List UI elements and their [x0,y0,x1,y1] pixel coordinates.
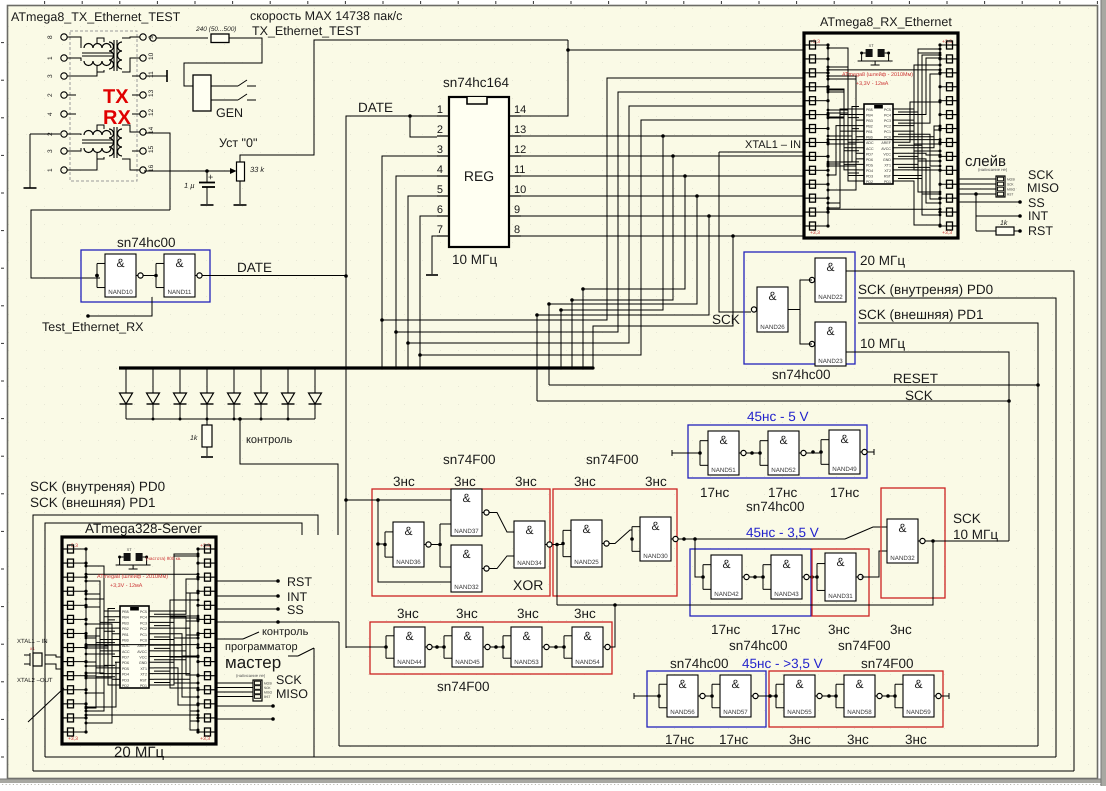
svg-text:NAND45: NAND45 [455,659,480,666]
svg-text:&: & [898,521,906,535]
gate NAND55 [784,675,815,717]
svg-text:2: 2 [437,124,443,136]
svg-text:5: 5 [437,184,443,196]
ethernet magnetics module dashed outline [70,31,137,181]
svg-text:MOSI: MOSI [1007,178,1015,182]
IC box sn74hc00 45ns-5V (blue) [688,425,867,478]
wire NAND51-NAND52 [746,452,761,454]
gate NAND26 [757,287,788,332]
wire U1 pin12 to RX [521,155,804,157]
svg-text:PD5: PD5 [866,163,873,167]
IC box sn74hc00 right (blue) [744,252,855,364]
svg-text:SS: SS [287,603,304,617]
svg-text:NAND10: NAND10 [108,289,133,296]
wire NAND32 out to SCK10 [926,540,1010,542]
svg-text:&: & [651,519,659,533]
gate NAND31 [825,553,856,601]
wire NAND53-NAND54 [549,646,565,648]
wire NAND44-NAND45 [432,646,445,648]
wire NAND10 out to NAND11 in [143,275,157,277]
svg-text:NAND55: NAND55 [787,709,812,716]
U1 pin 12 [509,155,521,157]
svg-text:PB3: PB3 [122,621,129,625]
svg-text:(написание не): (написание не) [236,673,266,678]
IC box sn74F00 second (red) [553,489,677,596]
svg-text:15: 15 [148,145,155,153]
wire RX lower to pot wiper [144,170,232,172]
wire NAND49 out stub [867,451,875,453]
svg-text:SCK (внутреняя) PD0: SCK (внутреняя) PD0 [30,479,165,494]
svg-text:&: & [782,557,790,571]
connector J1 pin 2 (left) [61,131,67,137]
svg-text:PB1: PB1 [122,633,129,637]
svg-text:RST: RST [287,575,312,589]
wire kontrol from rail [240,419,338,535]
svg-text:ATmega8 (шлейф - 2010Мм): ATmega8 (шлейф - 2010Мм) [97,574,168,580]
svg-text:3нс: 3нс [517,606,539,621]
wire NAND55-NAND58 [822,695,837,697]
svg-text:&: & [722,557,730,571]
svg-text:GND: GND [883,158,891,162]
svg-text:PC1: PC1 [140,633,147,637]
svg-text:240 (50...500): 240 (50...500) [195,26,236,33]
svg-text:MISO: MISO [264,691,273,695]
wire NAND45-NAND53 [490,646,504,648]
svg-text:VCC: VCC [883,152,891,156]
U1 pin 4 [437,175,449,177]
terminal at J1 TX out [150,35,156,41]
svg-text:VCC: VCC [139,656,147,660]
svg-text:45нс - 5 V: 45нс - 5 V [747,409,808,424]
wire U1 pin9 to RX [521,215,804,217]
connector J1 pin 15 (right) [140,148,146,154]
svg-text:11: 11 [148,71,155,78]
wire feedback NAND54 path [557,541,933,605]
svg-text:Test_Ethernet_RX: Test_Ethernet_RX [42,320,144,334]
svg-text:RX: RX [103,107,131,129]
svg-text:скорость MAX 14738 пак/с: скорость MAX 14738 пак/с [250,9,402,23]
svg-text:ADC: ADC [866,141,874,145]
diode VD7 [287,370,289,394]
wire feed to NAND42 [695,539,703,577]
wire INT slave [974,192,978,196]
svg-text:4: 4 [47,112,54,116]
svg-text:+3,3: +3,3 [200,543,210,549]
svg-text:NAND36: NAND36 [396,559,421,566]
diode VD5 [233,370,235,394]
svg-text:3нс: 3нс [905,732,927,747]
svg-text:10 МГц: 10 МГц [452,252,497,267]
wire Test_Ethernet_RX tap [88,297,152,316]
svg-text:1: 1 [437,104,443,116]
wire DATE to U1 pins 1,2 [346,116,437,276]
wire NAND52-NAND49 [806,452,822,454]
svg-text:3нс: 3нс [847,732,869,747]
svg-text:SCK: SCK [712,312,740,327]
wire third net with contact [288,655,298,657]
IC box sn74F00 bottom right (red) [769,671,943,727]
svg-text:NAND32: NAND32 [454,584,479,591]
connector J1 pin 3 (left) [61,148,67,154]
gate NAND36 [393,522,424,567]
connector J1 pin 8 (left) [61,34,67,40]
wire mesh pin9 drop to SCK [537,216,709,401]
svg-text:sn74hc00: sn74hc00 [772,367,831,382]
svg-text:NAND49: NAND49 [832,466,857,473]
wire stub 719 [216,718,272,720]
resistor R4 1k [996,227,1014,235]
svg-text:SCK: SCK [264,686,271,690]
svg-text:+3,3: +3,3 [942,39,952,45]
U1 pin 14 [509,115,521,117]
gate NAND43 [771,555,802,599]
IC box sn74hc00 bottom (blue) [647,671,766,727]
gate NAND58 [844,675,875,717]
wire RST 328 [216,580,277,582]
svg-text:8: 8 [514,224,520,236]
svg-text:&: & [116,256,124,270]
terminator stub right of TX [146,75,167,77]
connector J1 pin 1 (left) [61,167,67,173]
gate NAND56 [667,675,698,717]
svg-text:PD4: PD4 [866,169,873,173]
svg-text:sn74F00: sn74F00 [838,638,891,653]
svg-text:XT2: XT2 [884,169,891,173]
svg-text:XTAL1 – IN: XTAL1 – IN [17,638,48,645]
diode common rail [126,418,315,420]
svg-text:ATmega8_RX_Ethernet: ATmega8_RX_Ethernet [820,15,952,29]
ground near J1 pin [30,133,60,135]
svg-text:XT: XT [127,547,133,552]
svg-text:ACC: ACC [122,650,130,654]
svg-text:NAND34: NAND34 [517,560,542,567]
wire NAND43-NAND31 [809,576,818,578]
gate NAND23 [815,322,846,366]
svg-text:TX_Ethernet_TEST: TX_Ethernet_TEST [252,24,361,38]
svg-text:SCK: SCK [1007,183,1014,187]
wire NAND57-NAND55 [758,695,777,697]
transformer T1 (TX common-mode choke) [84,44,111,49]
svg-text:INT: INT [1028,209,1049,223]
IC box sn74hc00 45ns-3.5V (blue) [690,549,811,616]
wire RX out down [145,133,170,210]
svg-text:INT: INT [287,590,308,604]
svg-text:RST: RST [140,678,148,682]
wire SCK PD0 net [858,298,1056,757]
svg-text:PD1: PD1 [140,684,147,688]
svg-text:7: 7 [437,224,443,236]
svg-text:6: 6 [437,204,443,216]
svg-text:20 МГц: 20 МГц [114,744,164,761]
generator GEN box [193,75,211,111]
svg-text:XT: XT [869,43,875,48]
svg-text:PB4: PB4 [122,616,129,620]
gate NAND10 [105,254,136,297]
wire NAND26 input [746,311,751,313]
wire mesh pin10 drop to RESET [549,196,697,385]
wire route y355 [420,120,804,355]
svg-text:NAND25: NAND25 [574,559,599,566]
wire R1 to GEN loop [184,38,262,86]
svg-text:PC1: PC1 [884,130,891,134]
wire RST slave via R4 [976,230,996,232]
gate NAND59 [903,675,934,717]
crystal X2 [33,653,42,666]
svg-text:PD7: PD7 [866,152,873,156]
wire SCK PD1 net [858,323,1038,746]
svg-text:PB5: PB5 [866,108,873,112]
svg-text:контроль: контроль [246,434,293,446]
U1 pin 10 [509,195,521,197]
connector J1 pin 14 (right) [140,129,146,135]
gate NAND37 [451,489,482,536]
wire U1 pin5 left route [408,196,437,368]
wire U1 pin11 to RX [521,175,804,177]
svg-text:1: 1 [47,168,54,172]
svg-text:PD3: PD3 [866,174,873,178]
wire U1 pin14 riser [521,40,568,116]
svg-text:&: & [462,547,470,561]
wire NAND58-NAND59 [882,695,896,697]
svg-text:+: + [208,172,213,182]
wire input stub 45-5V [672,452,700,454]
svg-text:&: & [795,677,803,691]
svg-text:4: 4 [437,164,443,176]
svg-text:sn74hc00: sn74hc00 [117,235,176,250]
wire 10MHz net [846,352,1009,541]
svg-text:&: & [175,256,183,270]
svg-text:3нс: 3нс [454,474,476,489]
U1 pin 11 [509,175,521,177]
svg-text:SCK: SCK [905,388,933,403]
svg-text:2: 2 [47,93,54,97]
U1 pin 7 [437,235,449,237]
svg-text:&: & [855,677,863,691]
svg-text:1k: 1k [190,434,198,442]
gate NAND57 [720,675,751,717]
svg-text:+3,3: +3,3 [810,230,820,236]
wire NAND11 out DATE [202,275,347,277]
connector J1 pin 16 (right) [140,167,146,173]
svg-text:SCK (внешняя) PD1: SCK (внешняя) PD1 [858,307,984,322]
wire NAND26 out split [788,280,812,310]
svg-text:+3,3V - 12мА: +3,3V - 12мА [110,583,143,589]
wire DATE to NAND44 [346,646,386,648]
diode VD2 [152,370,154,394]
wire NAND54 out up [610,605,616,647]
wire U1 pin3 left route [382,156,437,368]
gate NAND34 [514,521,545,568]
svg-text:&: & [731,677,739,691]
svg-text:RST: RST [1007,193,1013,197]
wire NAND34 out to NAND25 [553,544,564,546]
wire NAND59 out stub [941,695,950,697]
wire loop PD1 left [45,523,302,757]
svg-text:sn74F00: sn74F00 [586,452,639,467]
svg-text:ACC: ACC [866,147,874,151]
svg-text:sn74hc00: sn74hc00 [670,656,729,671]
svg-text:10: 10 [514,184,526,196]
svg-text:NAND58: NAND58 [847,709,872,716]
IC box NAND32 output (red) [881,488,945,598]
switch SA2 [211,99,238,101]
svg-text:SCK: SCK [276,673,302,687]
svg-text:3: 3 [47,149,54,153]
svg-text:&: & [405,629,413,643]
svg-text:SCK (внутреняя) PD0: SCK (внутреняя) PD0 [858,282,993,297]
connector J1 pin 10 (right) [140,55,146,61]
wire XOR input [346,499,378,501]
svg-text:sn74F00: sn74F00 [437,679,490,694]
svg-text:3нс: 3нс [789,732,811,747]
svg-text:AREF: AREF [881,141,891,145]
U1 pin7 ground wire [432,236,437,274]
wire U1 pin13 to RX [521,135,804,137]
wire NAND36 out split [431,544,441,546]
svg-text:17нс: 17нс [700,485,729,500]
wire U1 pin8 to RX [521,235,804,237]
svg-text:Уст "0": Уст "0" [219,136,257,150]
gate NAND30 [640,517,671,561]
wire route y320 [382,78,804,320]
svg-text:NAND30: NAND30 [643,553,668,560]
wire U1 pin6 left route [420,216,437,368]
svg-text:NAND54: NAND54 [575,659,600,666]
svg-text:&: & [582,522,590,536]
svg-text:3нс: 3нс [574,474,596,489]
svg-text:PC2: PC2 [884,125,891,129]
gate NAND44 [394,627,425,667]
wire RESET [549,384,1038,386]
svg-text:PB0: PB0 [866,136,873,140]
svg-text:NAND56: NAND56 [670,709,695,716]
svg-text:MISO: MISO [1007,188,1016,192]
svg-text:PD5: PD5 [122,667,129,671]
svg-text:12: 12 [148,108,155,116]
diode VD4 [206,370,208,394]
svg-text:(написание не): (написание не) [978,167,1008,172]
svg-text:мастер: мастер [225,653,281,672]
svg-text:SCK: SCK [953,511,981,526]
IC box sn74F00 XOR (red) [372,489,550,596]
wire SS 328 [216,608,277,610]
svg-text:GEN: GEN [216,106,243,120]
svg-text:NAND57: NAND57 [723,709,748,716]
svg-text:PB2: PB2 [122,627,129,631]
wire bottom return y757 [45,756,1056,758]
svg-text:9: 9 [514,204,520,216]
wire route y343 [408,106,804,343]
transformer T4 (RX isolation) [109,129,114,156]
svg-text:&: & [583,629,591,643]
U1 pin 3 [437,155,449,157]
svg-text:sn74hc00: sn74hc00 [746,499,805,514]
svg-text:PB1: PB1 [866,130,873,134]
svg-text:PD6: PD6 [122,661,129,665]
svg-text:sn74F00: sn74F00 [861,656,914,671]
connector J1 pin 9 (right) [140,34,146,40]
svg-text:17нс: 17нс [711,622,740,637]
svg-text:3нс: 3нс [574,606,596,621]
svg-text:DATE: DATE [358,100,393,115]
svg-text:45нс - 3,5 V: 45нс - 3,5 V [746,525,819,540]
svg-text:14: 14 [514,104,526,116]
svg-text:3нс: 3нс [828,622,850,637]
svg-text:PD1: PD1 [884,180,891,184]
gate NAND25 [571,520,602,567]
svg-text:17нс: 17нс [830,485,859,500]
svg-text:&: & [463,629,471,643]
svg-text:+3,3: +3,3 [68,736,78,742]
svg-text:NAND31: NAND31 [828,593,853,600]
svg-text:10 МГц: 10 МГц [953,527,998,542]
svg-text:XOR: XOR [513,577,543,593]
wire loop PD0 left [33,515,318,771]
svg-text:PC3: PC3 [884,119,891,123]
svg-text:17нс: 17нс [665,732,694,747]
svg-text:NAND32: NAND32 [890,555,915,562]
svg-text:MISO: MISO [1027,181,1059,195]
svg-text:SS: SS [1028,196,1045,210]
svg-text:17нс: 17нс [768,485,797,500]
connector J1 pin 1 (left) [61,55,67,61]
wire route y332 [396,92,804,332]
connector J1 pin 13 (right) [140,92,146,98]
svg-text:NAND53: NAND53 [514,659,539,666]
capacitor C1 1u polarized [206,171,208,182]
connector J1 pin 12 (right) [140,111,146,117]
svg-text:PB3: PB3 [866,119,873,123]
svg-text:13: 13 [148,89,155,97]
right grey bar [1101,0,1106,786]
wire net DATE vertical [345,276,347,648]
gate NAND32 (xor) [451,545,482,592]
svg-text:RST: RST [1028,224,1053,238]
svg-text:1: 1 [47,56,54,60]
MCU block ATmega328-Server [62,537,216,744]
wire stub 706 [216,705,272,707]
svg-text:3нс: 3нс [393,474,415,489]
gate NAND11 [164,254,195,297]
gate NAND51 [708,431,739,475]
wires TX magnetics [76,37,81,48]
svg-text:XT1: XT1 [884,163,891,167]
svg-text:&: & [836,555,844,569]
svg-text:&: & [462,491,470,505]
wire NAND42-NAND43 [749,576,764,578]
svg-text:3нс: 3нс [890,622,912,637]
svg-text:+3,3: +3,3 [942,230,952,236]
svg-text:NAND42: NAND42 [714,591,739,598]
svg-text:RESET: RESET [893,371,938,386]
wire SCK long [537,400,1009,402]
svg-text:NAND23: NAND23 [818,358,843,365]
svg-text:sn74F00: sn74F00 [443,452,496,467]
connector J1 pin 3 (left) [61,73,67,79]
svg-text:45нс - >3,5 V: 45нс - >3,5 V [742,656,823,671]
svg-text:&: & [404,524,412,538]
svg-text:PD4: PD4 [122,673,129,677]
U1 pin 6 [437,215,449,217]
svg-text:программатор: программатор [225,641,298,653]
svg-text:10 МГц: 10 МГц [860,336,905,351]
svg-text:1k: 1k [1000,219,1008,227]
svg-text:PC3: PC3 [140,621,147,625]
svg-text:AVCC: AVCC [881,147,891,151]
IC box NAND31 (red) [812,549,869,616]
svg-text:PC2: PC2 [140,627,147,631]
svg-text:ATmega8_TX_Ethernet_TEST: ATmega8_TX_Ethernet_TEST [11,10,181,24]
